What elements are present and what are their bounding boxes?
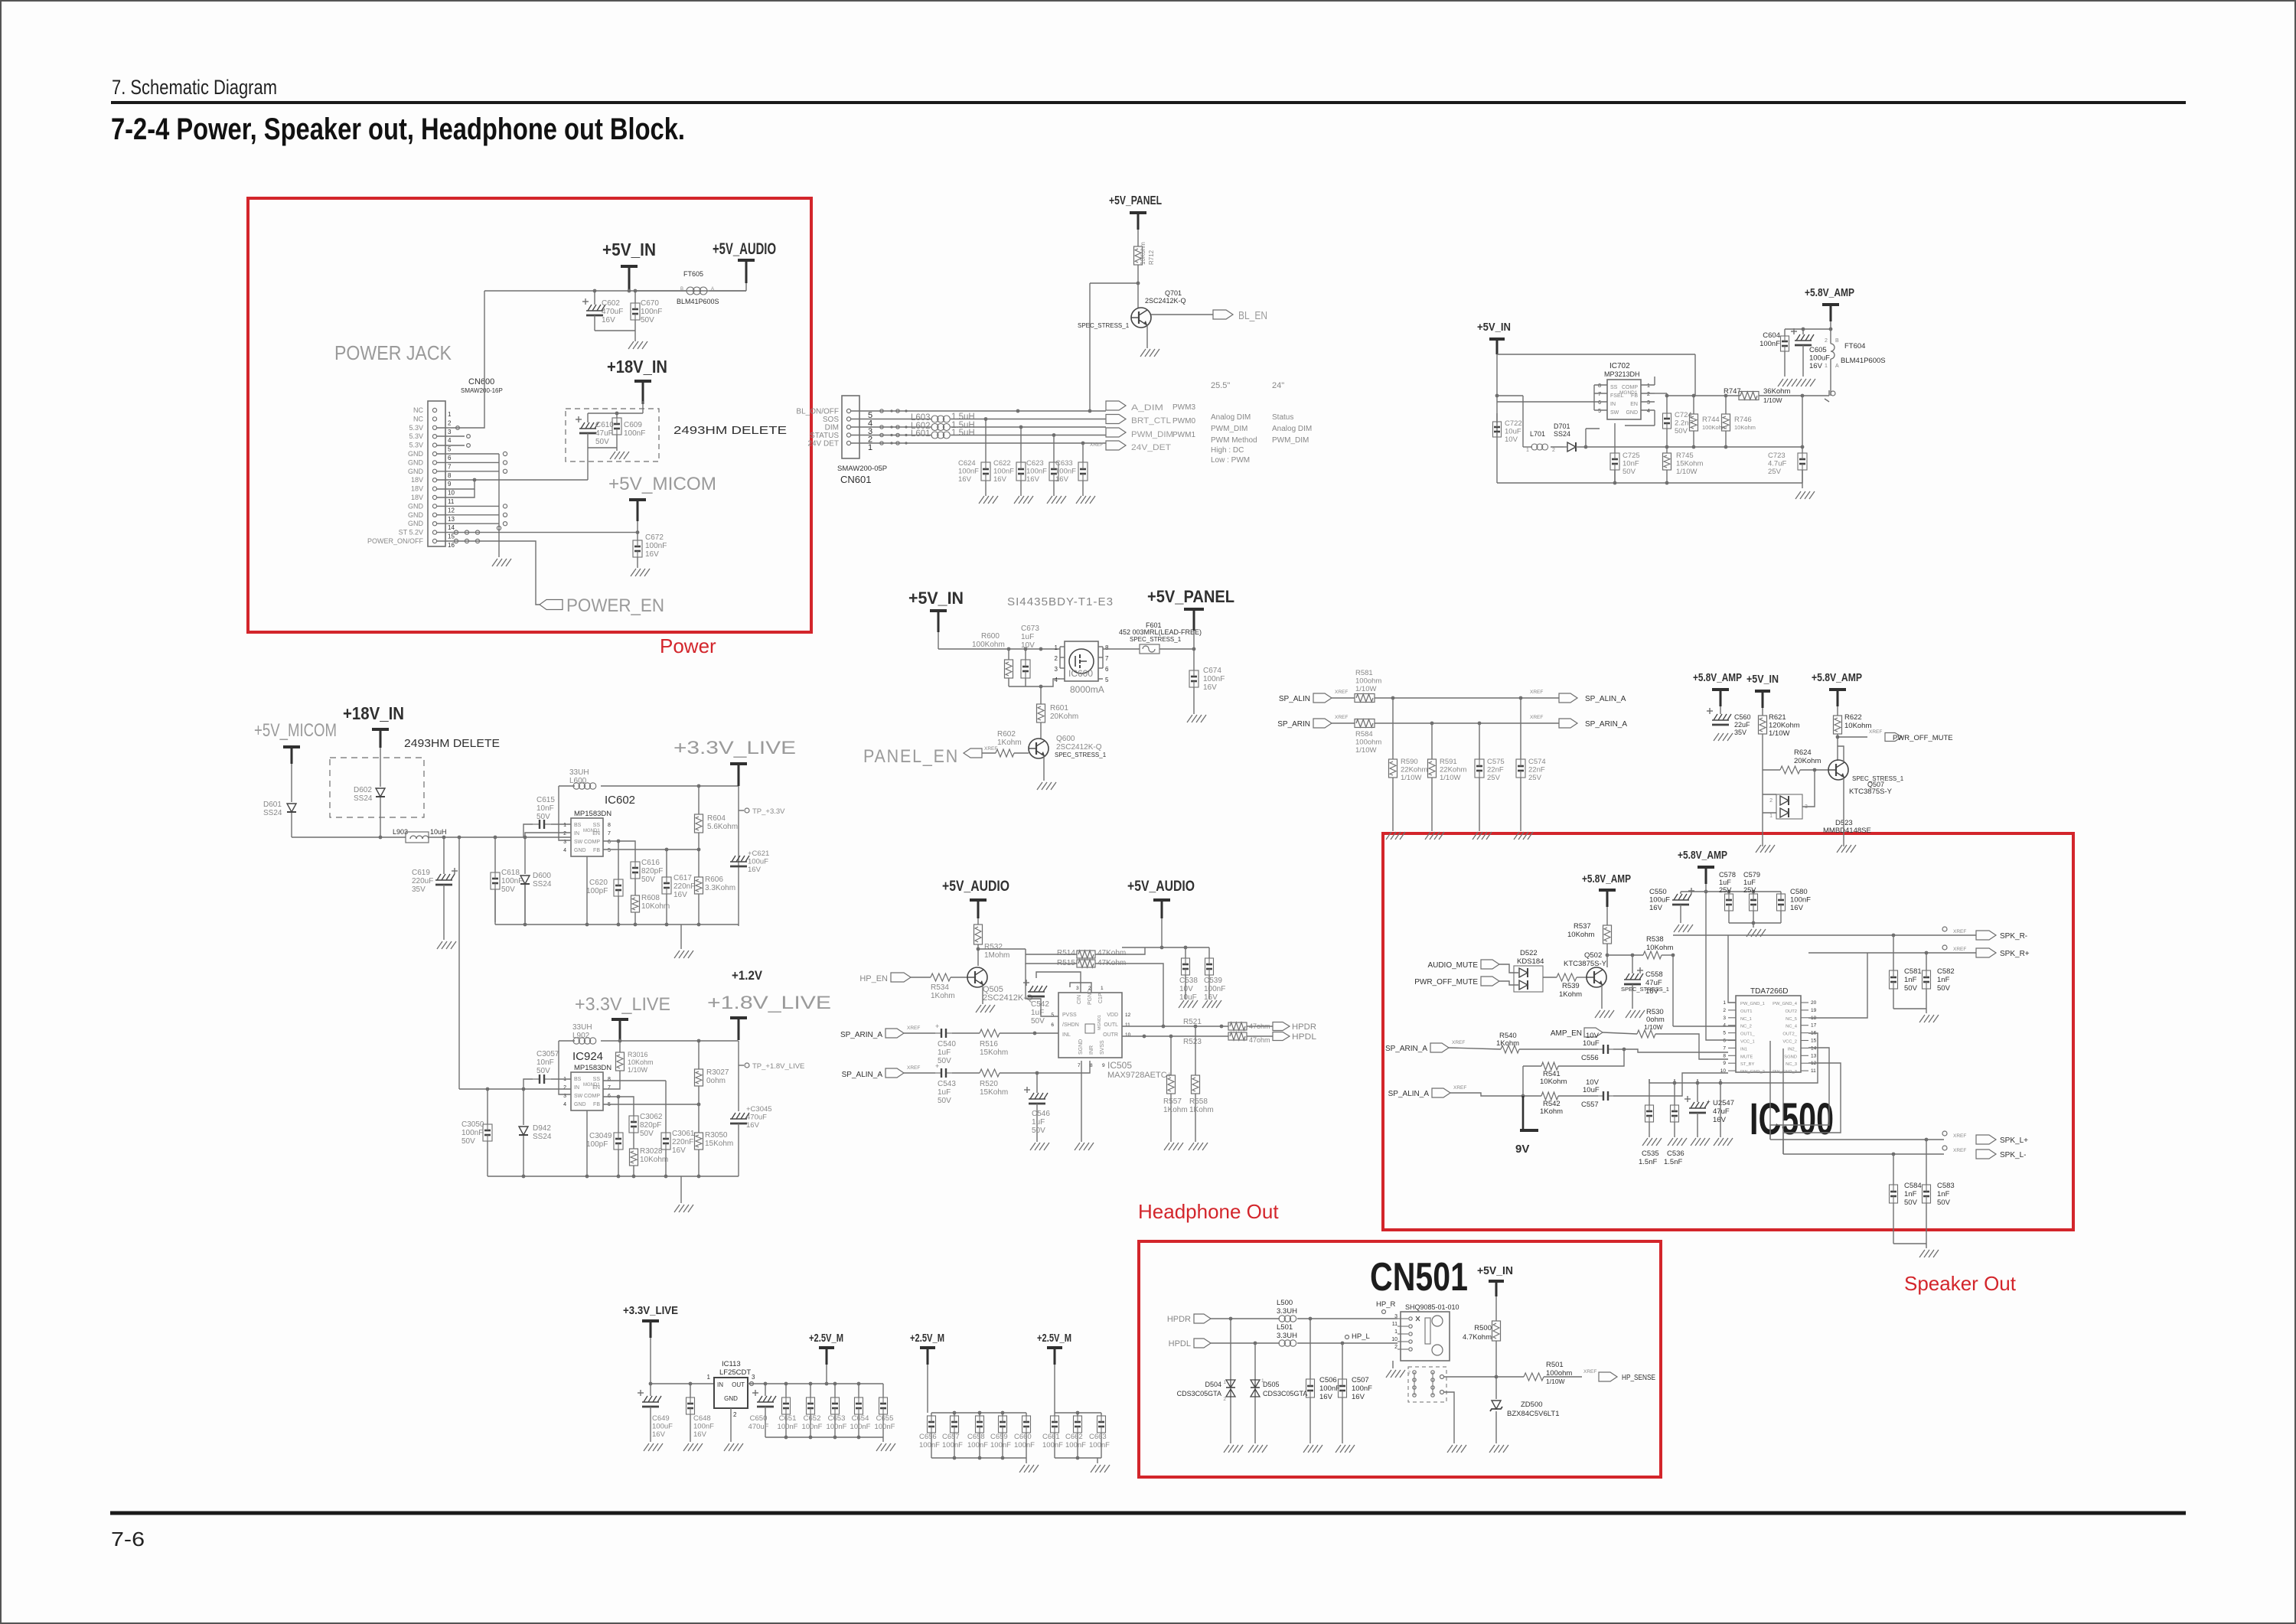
svg-text:C579: C579	[1743, 871, 1760, 879]
svg-text:50V: 50V	[1032, 1127, 1045, 1135]
svg-text:C653: C653	[828, 1414, 846, 1423]
svg-text:C540: C540	[938, 1040, 956, 1048]
svg-text:1: 1	[1055, 644, 1058, 651]
svg-text:0ohm: 0ohm	[706, 1077, 726, 1085]
svg-text:2.2nF: 2.2nF	[1675, 419, 1693, 428]
svg-text:R534: R534	[931, 983, 949, 992]
svg-text:C550: C550	[1649, 888, 1667, 896]
svg-text:R745: R745	[1676, 452, 1694, 460]
svg-text:C657: C657	[942, 1433, 960, 1441]
ground	[1642, 1138, 1662, 1146]
svg-text:3: 3	[752, 1374, 755, 1381]
svg-text:ZD500: ZD500	[1521, 1401, 1543, 1409]
svg-text:D701: D701	[1554, 422, 1570, 430]
resistor R557	[1163, 1035, 1188, 1142]
note POWER JACK	[334, 341, 452, 364]
svg-text:MAX9728AETC+: MAX9728AETC+	[1107, 1071, 1172, 1080]
svg-text:100nF: 100nF	[1065, 1441, 1086, 1450]
svg-text:13: 13	[448, 516, 455, 523]
wire 18V node	[588, 401, 643, 422]
svg-text:1/10W: 1/10W	[1763, 396, 1782, 404]
ground	[674, 1176, 693, 1212]
wire IC602 in	[525, 833, 571, 837]
svg-text:GND: GND	[408, 502, 424, 510]
svg-text:R557: R557	[1163, 1097, 1182, 1106]
svg-text:INR: INR	[1089, 1045, 1094, 1055]
power flag +2.5V_M (1)	[809, 1332, 843, 1384]
capacitor C673	[1021, 624, 1039, 686]
wire live feed down	[458, 837, 460, 1089]
svg-text:PW_GND_2: PW_GND_2	[1740, 1070, 1765, 1075]
svg-text:R523: R523	[1183, 1038, 1202, 1046]
svg-text:SMAW200-16P: SMAW200-16P	[461, 387, 503, 394]
svg-text:SPEC_STRESS_1: SPEC_STRESS_1	[1078, 322, 1130, 329]
svg-text:1Kohm: 1Kohm	[1163, 1106, 1188, 1114]
capacitor C574	[1516, 698, 1546, 831]
svg-text:+2.5V_M: +2.5V_M	[809, 1332, 843, 1345]
svg-text:6: 6	[608, 840, 611, 845]
svg-text:+: +	[935, 1062, 939, 1070]
net SP_ARIN_A (amp)	[1385, 1040, 1465, 1053]
svg-text:220nF: 220nF	[672, 1138, 693, 1146]
diode D942	[519, 1089, 552, 1176]
svg-text:1/10W: 1/10W	[1644, 1023, 1663, 1031]
svg-text:C3049: C3049	[589, 1132, 612, 1140]
resistor R581	[1355, 669, 1381, 703]
svg-text:C617: C617	[673, 874, 692, 882]
svg-text:C722: C722	[1505, 419, 1522, 428]
svg-text:R516: R516	[980, 1040, 998, 1048]
svg-text:17: 17	[1811, 1023, 1817, 1029]
svg-text:KTC3875S-Y: KTC3875S-Y	[1849, 788, 1893, 796]
note Speaker Out region box	[1383, 833, 2073, 1230]
svg-text:SS: SS	[593, 823, 601, 828]
svg-text:+5V_IN: +5V_IN	[602, 240, 656, 259]
svg-text:100nF: 100nF	[1319, 1384, 1340, 1393]
svg-text:100nF: 100nF	[993, 468, 1014, 476]
svg-text:+C3045: +C3045	[746, 1105, 772, 1114]
note DIM table	[1211, 381, 1312, 465]
svg-text:5: 5	[608, 848, 611, 853]
capacitor C602	[582, 291, 623, 331]
svg-text:R558: R558	[1189, 1097, 1208, 1106]
svg-text:C651: C651	[779, 1414, 797, 1423]
svg-text:1: 1	[868, 443, 872, 452]
wire sgnd	[1081, 1061, 1082, 1142]
net SP_ALIN	[1279, 690, 1349, 703]
capacitor C616	[618, 841, 663, 884]
svg-text:C557: C557	[1581, 1101, 1599, 1109]
net HPDL (cn)	[1169, 1339, 1211, 1348]
svg-text:L501: L501	[1277, 1323, 1293, 1332]
svg-text:BS: BS	[574, 823, 582, 828]
svg-text:C650: C650	[750, 1414, 768, 1423]
svg-text:1.5nF: 1.5nF	[1664, 1158, 1682, 1166]
svg-text:1Kohm: 1Kohm	[997, 739, 1022, 747]
ground	[1473, 832, 1492, 840]
svg-text:100nF: 100nF	[645, 542, 667, 550]
resistor R601	[1037, 704, 1079, 722]
ground	[1037, 782, 1056, 790]
svg-text:GND: GND	[408, 520, 424, 527]
svg-text:OUT2: OUT2	[1786, 1009, 1797, 1014]
svg-text:U2547: U2547	[1713, 1099, 1734, 1107]
capacitor C650	[748, 1384, 776, 1437]
svg-text:25V: 25V	[1768, 468, 1782, 476]
transistor Q600	[1029, 735, 1107, 758]
ground	[1076, 496, 1095, 504]
capacitor C3049	[586, 1095, 623, 1176]
svg-text:Low : PWM: Low : PWM	[1211, 456, 1250, 465]
ground	[1014, 496, 1033, 504]
svg-text:36Kohm: 36Kohm	[1763, 387, 1790, 396]
svg-text:SI4435BDY-T1-E3: SI4435BDY-T1-E3	[1007, 595, 1114, 608]
svg-text:3: 3	[1647, 400, 1650, 406]
svg-text:Speaker Out: Speaker Out	[1904, 1272, 2017, 1295]
svg-text:CN501: CN501	[1370, 1255, 1468, 1300]
svg-text:Q701: Q701	[1165, 289, 1182, 297]
svg-text:100nF: 100nF	[1089, 1441, 1110, 1450]
svg-text:47Kohm: 47Kohm	[1097, 949, 1126, 957]
svg-text:100nF: 100nF	[624, 429, 645, 438]
capacitor C3057	[523, 1050, 571, 1089]
svg-text:GND: GND	[1626, 410, 1638, 416]
svg-text:Analog DIM: Analog DIM	[1272, 425, 1312, 433]
capacitor C622	[993, 427, 1026, 496]
svg-text:9: 9	[448, 481, 452, 488]
wire cin pgnd	[1036, 972, 1091, 993]
svg-text:18V: 18V	[411, 476, 423, 484]
ground	[1303, 1445, 1322, 1453]
wire output node	[1802, 390, 1835, 453]
svg-text:50V: 50V	[595, 438, 609, 446]
wire HPDL row	[1211, 1342, 1280, 1345]
note IC500	[1750, 1094, 1834, 1144]
svg-text:A_DIM: A_DIM	[1131, 403, 1163, 413]
svg-text:12: 12	[1125, 1013, 1131, 1018]
ground	[1919, 1250, 1939, 1257]
svg-text:50V: 50V	[1031, 1017, 1045, 1026]
wire SPK_L+ line	[1770, 1041, 1944, 1140]
capacitor C651	[778, 1384, 798, 1437]
svg-text:100uF: 100uF	[748, 858, 768, 866]
svg-text:B: B	[1835, 338, 1839, 344]
svg-text:R3016: R3016	[628, 1051, 648, 1058]
svg-text:C604: C604	[1763, 331, 1780, 340]
svg-text:4.7uF: 4.7uF	[1768, 460, 1786, 468]
wire gate node	[1009, 679, 1060, 704]
power flag +3.3V_LIVE (IC924)	[575, 994, 670, 1040]
svg-text:100nF: 100nF	[778, 1423, 798, 1431]
svg-text:3: 3	[1394, 1314, 1397, 1319]
svg-text:8: 8	[1723, 1053, 1726, 1058]
svg-text:R3027: R3027	[706, 1068, 729, 1077]
svg-text:100ohm: 100ohm	[1546, 1369, 1572, 1378]
net HP_EN	[859, 973, 911, 983]
svg-text:1: 1	[707, 1374, 711, 1381]
IC505 MAX9728	[1051, 986, 1172, 1080]
svg-text:25V: 25V	[1719, 886, 1732, 894]
svg-text:/SHDN: /SHDN	[1062, 1022, 1079, 1028]
svg-text:16V: 16V	[746, 1121, 760, 1130]
wire OUTL row	[1122, 1025, 1228, 1029]
svg-text:L601.: L601.	[911, 429, 933, 439]
svg-text:R604: R604	[707, 814, 726, 823]
resistor R539	[1543, 973, 1587, 999]
svg-text:GND: GND	[408, 468, 424, 475]
inductor L903	[393, 828, 571, 843]
svg-text:+5V_IN: +5V_IN	[1477, 321, 1511, 334]
svg-text:C624: C624	[958, 459, 976, 468]
svg-text:1: 1	[1647, 383, 1650, 389]
svg-text:D602: D602	[354, 786, 372, 794]
capacitor C657	[942, 1413, 963, 1458]
svg-text:47uF: 47uF	[595, 429, 613, 438]
svg-text:100uF: 100uF	[1649, 896, 1670, 905]
svg-text:XREF: XREF	[907, 1065, 920, 1071]
svg-text:ST 5.2V: ST 5.2V	[399, 529, 423, 536]
svg-text:47uF: 47uF	[1713, 1107, 1730, 1116]
svg-text:C618: C618	[501, 869, 520, 877]
svg-text:OUTR: OUTR	[1103, 1032, 1118, 1038]
svg-text:100nF: 100nF	[1760, 340, 1780, 348]
svg-text:+1.8V_LIVE: +1.8V_LIVE	[707, 993, 831, 1013]
svg-text:PVSS: PVSS	[1062, 1013, 1077, 1018]
capacitor C542	[1023, 980, 1049, 1026]
svg-text:L902: L902	[572, 1032, 590, 1040]
svg-text:15Kohm: 15Kohm	[705, 1140, 733, 1148]
svg-text:25V: 25V	[1487, 774, 1501, 782]
svg-text:14: 14	[1811, 1045, 1817, 1051]
svg-text:100nF: 100nF	[1203, 675, 1225, 683]
svg-text:XREF: XREF	[1453, 1085, 1466, 1091]
svg-text:R500: R500	[1474, 1324, 1492, 1332]
svg-text:MP1583DN: MP1583DN	[574, 810, 612, 818]
svg-text:C673: C673	[1021, 624, 1039, 633]
wire IC113 out rail	[748, 1382, 883, 1386]
transistor Q507	[1828, 760, 1904, 796]
ground	[1336, 1445, 1355, 1453]
ground	[876, 1443, 895, 1451]
svg-text:100nF: 100nF	[967, 1441, 988, 1450]
resistor R514	[1057, 949, 1126, 958]
net AMP_EN	[1551, 1028, 1603, 1038]
svg-text:10Kohm: 10Kohm	[641, 902, 670, 911]
svg-text:16V: 16V	[993, 475, 1007, 484]
svg-text:1/10W: 1/10W	[1769, 729, 1789, 738]
svg-text:2: 2	[1552, 448, 1555, 453]
svg-text:+5.8V_AMP: +5.8V_AMP	[1693, 671, 1742, 684]
wire Q701 base to BL_EN	[1151, 314, 1213, 315]
transistor Q505	[967, 967, 1033, 1003]
svg-text:MUTE: MUTE	[1740, 1055, 1753, 1059]
svg-text:25.5": 25.5"	[1211, 381, 1230, 390]
svg-text:16V: 16V	[1203, 683, 1217, 692]
svg-text:+5.8V_AMP: +5.8V_AMP	[1805, 286, 1854, 299]
svg-text:SS24: SS24	[263, 809, 282, 817]
inductor L501 loops	[1279, 1332, 1397, 1346]
resistor R538	[1643, 935, 1673, 1026]
svg-text:C610: C610	[595, 421, 614, 429]
svg-text:SW: SW	[574, 1094, 583, 1099]
svg-text:C605: C605	[1809, 346, 1827, 354]
svg-text:10V: 10V	[1179, 985, 1193, 993]
wire BL_ON/OFF row	[879, 409, 1106, 413]
capacitor C550	[1649, 888, 1694, 923]
resistor R608	[631, 879, 670, 925]
capacitor C652	[802, 1384, 823, 1437]
svg-text:16V: 16V	[1204, 993, 1218, 1002]
note +1.2V	[732, 968, 763, 983]
svg-text:+5.8V_AMP: +5.8V_AMP	[1678, 849, 1727, 862]
capacitor C674	[1189, 667, 1225, 714]
net BL_EN	[1213, 309, 1267, 322]
svg-text:10uF: 10uF	[1583, 1039, 1600, 1048]
svg-text:2493HM DELETE: 2493HM DELETE	[404, 737, 500, 750]
svg-text:1uF: 1uF	[1021, 633, 1034, 641]
svg-text:19: 19	[1811, 1008, 1817, 1013]
ground	[1189, 1143, 1208, 1150]
svg-text:PWM_DIM: PWM_DIM	[1272, 436, 1309, 445]
svg-text:5: 5	[1598, 409, 1601, 414]
svg-text:220uF: 220uF	[412, 877, 433, 885]
resistor R602	[982, 730, 1029, 757]
svg-text:+5V_MICOM: +5V_MICOM	[254, 720, 337, 741]
wire amp routing	[1673, 892, 1867, 1154]
svg-text:33UH: 33UH	[572, 1023, 592, 1032]
svg-text:C3062: C3062	[640, 1113, 663, 1121]
wire IC924 top rail	[601, 1039, 739, 1043]
svg-text:50V: 50V	[640, 1130, 654, 1138]
svg-text:XREF: XREF	[1953, 1148, 1966, 1153]
svg-text:OUT1_: OUT1_	[1740, 1032, 1755, 1037]
ground	[1447, 1445, 1466, 1453]
svg-text:R591: R591	[1440, 758, 1457, 766]
svg-text:+3.3V_LIVE: +3.3V_LIVE	[673, 738, 796, 758]
svg-text:100nF: 100nF	[1014, 1441, 1035, 1450]
ground	[628, 341, 647, 349]
wire D523 wiring	[1763, 770, 1815, 846]
ground	[1837, 845, 1856, 853]
svg-text:100nF: 100nF	[919, 1441, 940, 1450]
wire amp routing 2	[1649, 1033, 1818, 1084]
ground	[1714, 733, 1733, 741]
svg-text:100nF: 100nF	[1026, 468, 1047, 476]
svg-text:7: 7	[1105, 655, 1109, 662]
svg-text:20Kohm: 20Kohm	[1794, 757, 1821, 765]
wire Q505 emitter	[982, 986, 983, 1004]
svg-text:C658: C658	[967, 1433, 985, 1441]
resistor R521	[1183, 1018, 1273, 1030]
IC600 SI4435BDY	[1007, 595, 1114, 695]
resistor R624	[1763, 748, 1828, 774]
svg-text:L500: L500	[1277, 1299, 1293, 1307]
net HPDR (cn)	[1167, 1314, 1211, 1324]
net PWR_OFF_MUTE out	[1838, 729, 1953, 742]
capacitor C557	[1581, 1073, 1728, 1109]
svg-text:OUTL: OUTL	[1104, 1022, 1118, 1028]
power flag +5V_MICOM	[608, 474, 716, 521]
svg-text:8000mA: 8000mA	[1070, 684, 1104, 695]
svg-text:IC113: IC113	[722, 1360, 741, 1368]
svg-text:GND: GND	[724, 1395, 738, 1402]
svg-text:15Kohm: 15Kohm	[980, 1048, 1008, 1057]
svg-text:R602: R602	[997, 730, 1016, 739]
svg-text:12: 12	[448, 507, 455, 514]
svg-text:9: 9	[1723, 1061, 1726, 1066]
net SP_ALIN_A (xref)	[1530, 690, 1626, 703]
capacitor C506	[1306, 1319, 1341, 1443]
svg-text:C580: C580	[1790, 888, 1808, 896]
svg-text:100nF: 100nF	[875, 1423, 895, 1431]
IC U602 MP1583DN	[563, 794, 635, 856]
net BRT_CTL	[1106, 415, 1171, 426]
svg-text:POWER JACK: POWER JACK	[334, 341, 452, 364]
ground	[1202, 1000, 1221, 1008]
power flag +2.5V_M (2)	[910, 1332, 944, 1413]
svg-text:1: 1	[448, 411, 452, 418]
svg-text:22Kohm: 22Kohm	[1401, 766, 1427, 774]
svg-text:POWER_EN: POWER_EN	[566, 595, 664, 616]
capacitor C615	[523, 796, 571, 837]
svg-text:PWR_OFF_MUTE: PWR_OFF_MUTE	[1414, 978, 1478, 986]
svg-text:+3.3V_LIVE: +3.3V_LIVE	[575, 994, 670, 1015]
svg-text:5: 5	[1051, 1013, 1054, 1018]
svg-text:CIN: CIN	[1077, 995, 1082, 1004]
svg-text:C670: C670	[641, 299, 659, 308]
svg-text:C661: C661	[1042, 1433, 1060, 1441]
svg-text:1/10W: 1/10W	[628, 1066, 648, 1074]
resistor R3050	[695, 1104, 734, 1176]
power flag +5V_IN (panel sw)	[908, 589, 964, 632]
capacitor C621	[730, 850, 769, 874]
svg-text:16V: 16V	[693, 1430, 707, 1439]
svg-text:SPK_R+: SPK_R+	[2000, 950, 2030, 958]
capacitor C656	[919, 1413, 940, 1458]
inductor L600	[559, 768, 739, 840]
svg-text:R624: R624	[1794, 748, 1812, 757]
note PWM3	[1172, 403, 1195, 412]
svg-text:+2.5V_M: +2.5V_M	[1037, 1332, 1071, 1345]
svg-text:15Kohm: 15Kohm	[1676, 460, 1703, 468]
ferrite FT605	[635, 270, 746, 305]
svg-text:50V: 50V	[1623, 468, 1636, 476]
ground	[1224, 1445, 1243, 1453]
net PWM_DIM	[1106, 428, 1173, 439]
svg-text:100ohm: 100ohm	[1355, 677, 1381, 686]
power flag +5V_IN (mute)	[1746, 673, 1779, 708]
svg-text:100nF: 100nF	[942, 1441, 963, 1450]
inductor L500	[1277, 1299, 1297, 1316]
svg-text:PGND: PGND	[1088, 990, 1093, 1005]
diode D600	[520, 837, 552, 922]
capacitor C723	[1768, 452, 1807, 488]
svg-text:1nF: 1nF	[1937, 976, 1950, 984]
capacitor C3045	[730, 1105, 772, 1176]
resistor R541	[1523, 1049, 1624, 1086]
resistor R621	[1759, 708, 1800, 770]
svg-text:LF25CDT: LF25CDT	[719, 1368, 751, 1377]
inductor L500 loops	[1279, 1316, 1397, 1322]
svg-text:1uF: 1uF	[1743, 879, 1756, 886]
capacitor C661	[1042, 1413, 1063, 1458]
net SPK_L-	[1942, 1146, 2026, 1159]
inductor L902 loops	[559, 1023, 596, 1094]
wire FB row (924)	[603, 1104, 699, 1105]
wire IC602 bottom rail	[495, 856, 739, 926]
capacitor C725	[1610, 452, 1640, 483]
wire 2.5v m3 rail	[1055, 1411, 1101, 1415]
